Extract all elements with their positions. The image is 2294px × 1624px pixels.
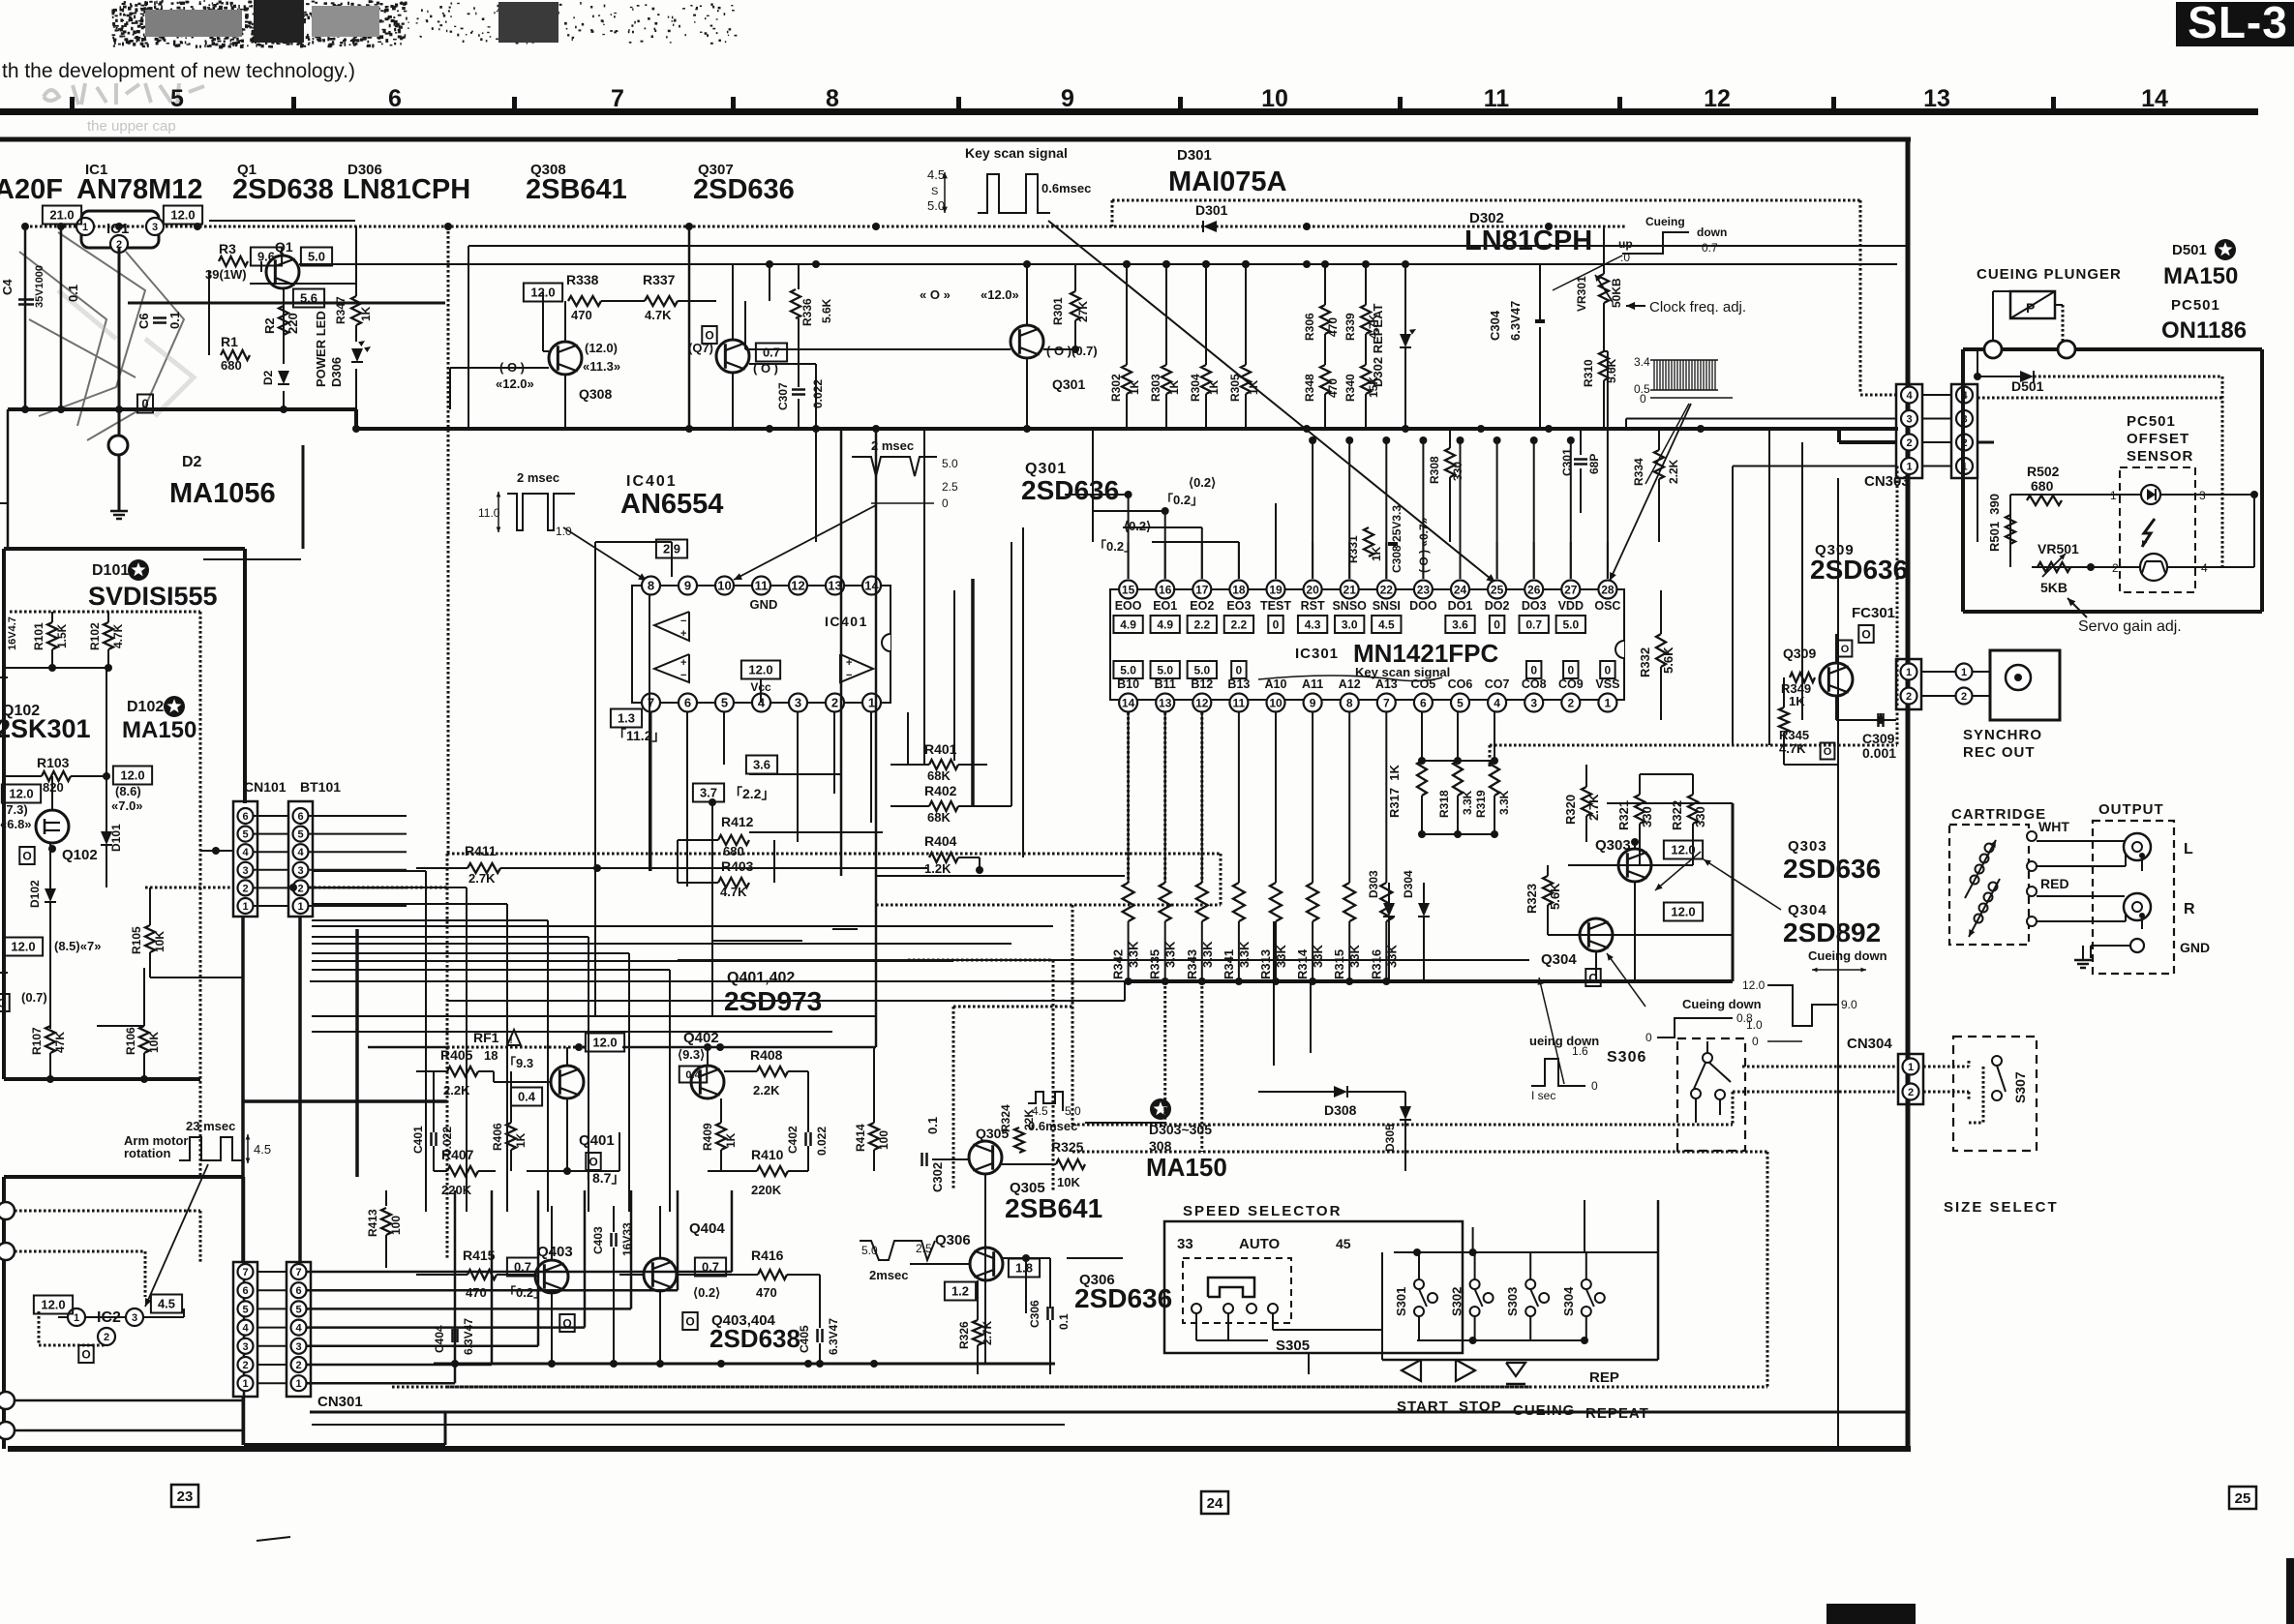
svg-text:ueing down: ueing down — [1529, 1034, 1599, 1048]
svg-text:1: 1 — [1906, 461, 1912, 472]
svg-text:39(1W): 39(1W) — [205, 267, 247, 282]
cartridge dashed box — [1949, 825, 2029, 945]
svg-text:7: 7 — [295, 1267, 301, 1278]
svg-text:Q304: Q304 — [1788, 902, 1827, 918]
svg-text:I sec: I sec — [1531, 1089, 1555, 1102]
svg-text:+: + — [680, 657, 686, 669]
svg-text:23: 23 — [177, 1489, 194, 1505]
svg-text:Q306: Q306 — [935, 1232, 971, 1248]
svg-text:4.5: 4.5 — [254, 1142, 271, 1157]
svg-text:D101: D101 — [92, 562, 129, 579]
mid horizontals from left to IC301 ladder — [678, 959, 1529, 961]
svg-text:220K: 220K — [751, 1183, 782, 1197]
resistor R107 47K — [45, 1026, 55, 1053]
right edge black bar — [2286, 1558, 2294, 1624]
svg-text:2SD636: 2SD636 — [1810, 555, 1908, 585]
phototransistor — [2140, 554, 2167, 581]
svg-text:5.0: 5.0 — [1562, 617, 1579, 631]
resistor R332 5.6K — [1656, 634, 1666, 667]
wires Q306 — [910, 1263, 970, 1265]
heavy node rail y1014 — [1125, 979, 1733, 983]
svg-text:0: 0 — [1273, 617, 1280, 631]
svg-text:0: 0 — [1494, 617, 1500, 631]
extra long vertical feeds — [840, 429, 843, 876]
svg-text:16V4.7: 16V4.7 — [7, 617, 18, 650]
svg-text:S: S — [931, 186, 938, 197]
wire main 12V bus y234 — [25, 226, 1626, 228]
svg-text:C301: C301 — [1560, 448, 1574, 476]
svg-text:3.7: 3.7 — [700, 786, 717, 800]
svg-text:R319: R319 — [1474, 790, 1488, 818]
svg-text:5.0: 5.0 — [942, 457, 958, 470]
svg-text:16V33: 16V33 — [620, 1222, 634, 1256]
svg-text:330: 330 — [1640, 806, 1654, 827]
svg-text:1K: 1K — [514, 1132, 528, 1148]
svg-text:5: 5 — [721, 696, 728, 710]
selector dashed box — [1183, 1258, 1291, 1323]
wire y273 collector bus — [299, 263, 1897, 265]
svg-text:Q102: Q102 — [62, 847, 98, 863]
svg-text:D501: D501 — [2172, 242, 2207, 258]
svg-text:R105: R105 — [130, 926, 143, 954]
capacitor C302 — [921, 1153, 923, 1166]
svg-text:2: 2 — [1906, 691, 1912, 703]
svg-text:O: O — [1861, 627, 1870, 641]
resistor R304 1K — [1201, 365, 1211, 394]
svg-text:12.0: 12.0 — [1671, 843, 1695, 857]
beaded pin2 wire — [145, 887, 233, 889]
svg-text:24: 24 — [1207, 1495, 1223, 1512]
svg-text:2SD636: 2SD636 — [1074, 1283, 1172, 1313]
selector staple symbol — [1208, 1278, 1254, 1297]
leader to IC401 pin10 — [734, 505, 876, 580]
staircase waveform 12-9-1-0 — [1767, 985, 1837, 1026]
svg-text:6.3V47: 6.3V47 — [827, 1318, 840, 1355]
svg-text:S301: S301 — [1394, 1287, 1408, 1316]
transistor Q306 — [970, 1248, 1003, 1280]
ruler ticks — [70, 97, 75, 110]
svg-text:2: 2 — [1961, 691, 1967, 703]
svg-text:C401: C401 — [411, 1126, 425, 1154]
jack stems — [2141, 856, 2143, 871]
heavy bottom rail Q40x block — [434, 1363, 1055, 1366]
svg-text:R403: R403 — [721, 858, 754, 874]
svg-text:100: 100 — [389, 1216, 403, 1235]
svg-text:D302: D302 — [1469, 210, 1504, 226]
svg-text:IC401: IC401 — [825, 614, 868, 629]
svg-text:680: 680 — [2031, 478, 2054, 494]
svg-text:⟨9.3⟩: ⟨9.3⟩ — [678, 1047, 705, 1062]
svg-text:EO1: EO1 — [1153, 599, 1177, 613]
svg-text:12.0: 12.0 — [11, 940, 35, 954]
svg-text:⟨0.2⟩: ⟨0.2⟩ — [693, 1285, 720, 1300]
svg-text:rotation: rotation — [124, 1146, 170, 1160]
svg-text:down: down — [1697, 226, 1727, 239]
svg-text:5.6K: 5.6K — [1548, 883, 1562, 910]
diode D102 — [45, 888, 56, 902]
svg-text:CN304: CN304 — [1847, 1036, 1892, 1052]
svg-text:Q303: Q303 — [1788, 838, 1827, 855]
svg-text:8: 8 — [1346, 696, 1353, 709]
connector CN301 left — [233, 1262, 257, 1397]
svg-text:13: 13 — [1923, 85, 1950, 112]
svg-text:R301: R301 — [1051, 297, 1065, 325]
svg-text:R320: R320 — [1563, 795, 1578, 825]
value box 0 — [19, 847, 34, 864]
svg-text:「0.2」: 「0.2」 — [1161, 493, 1203, 507]
resistor R317 1K — [1417, 761, 1427, 796]
svg-text:21: 21 — [1343, 583, 1357, 596]
IC401 body — [632, 586, 890, 703]
svg-text:68K: 68K — [927, 810, 951, 825]
svg-text:0.1: 0.1 — [925, 1117, 940, 1134]
wires D102 — [49, 843, 51, 888]
diode D501 — [2020, 371, 2034, 382]
resistor R301 27K — [1071, 291, 1080, 320]
svg-text:D304: D304 — [1402, 870, 1415, 898]
svg-text:1K: 1K — [1167, 379, 1181, 395]
svg-text:O: O — [589, 1155, 597, 1168]
svg-text:3.0: 3.0 — [1342, 617, 1358, 631]
corner wires pins 15-18 — [1065, 494, 1129, 496]
svg-text:LN81CPH: LN81CPH — [343, 174, 470, 205]
svg-text:4: 4 — [1906, 390, 1913, 402]
svg-text:B10: B10 — [1117, 677, 1139, 691]
svg-text:R402: R402 — [924, 783, 957, 798]
svg-text:470: 470 — [1326, 378, 1340, 398]
svg-text:(8.5)«7»: (8.5)«7» — [54, 939, 101, 953]
svg-text:R310: R310 — [1582, 359, 1595, 387]
resistor R338 470 — [568, 296, 601, 306]
capacitor C404 — [451, 1329, 454, 1342]
resistor R413 100 — [381, 1208, 391, 1235]
node open circle to D101 box — [128, 302, 445, 305]
svg-text:D2: D2 — [261, 370, 275, 385]
svg-text:R338: R338 — [566, 272, 599, 287]
IC301 bottom pins 14-1 — [1119, 694, 1137, 712]
svg-text:12.0: 12.0 — [9, 787, 33, 801]
wires Q305 — [932, 1158, 969, 1160]
svg-text:470: 470 — [466, 1285, 487, 1300]
svg-text:3.3K: 3.3K — [1497, 790, 1511, 815]
diodes D303 D304 — [1383, 903, 1395, 917]
value box 2.9 — [656, 540, 687, 558]
svg-text:R332: R332 — [1638, 647, 1652, 677]
svg-text:VR301: VR301 — [1575, 276, 1588, 312]
dotted bus top right — [1112, 199, 1860, 202]
svg-text:Cueing: Cueing — [1645, 215, 1685, 228]
resistor R316 33K — [1380, 883, 1392, 921]
connector CN304 — [1898, 1054, 1923, 1104]
svg-text:5.0: 5.0 — [861, 1244, 878, 1257]
svg-text:9: 9 — [1310, 696, 1316, 709]
svg-text:10K: 10K — [1057, 1175, 1080, 1189]
SL-3 title block — [2176, 2, 2294, 46]
svg-text:P: P — [2026, 300, 2035, 316]
svg-text:2.7K: 2.7K — [468, 871, 496, 886]
svg-text:AN78M12: AN78M12 — [76, 174, 203, 205]
svg-text:23 msec: 23 msec — [186, 1119, 235, 1133]
svg-text:GND: GND — [750, 597, 778, 612]
capacitor C403 — [610, 1233, 613, 1247]
svg-text:R314: R314 — [1295, 948, 1310, 979]
S306 switch — [1703, 1053, 1712, 1063]
svg-text:−: − — [680, 670, 686, 681]
brace curve key scan bottom — [1258, 676, 1442, 681]
leader to Q304 — [1607, 953, 1645, 1007]
resistor R319 3.3K — [1490, 761, 1499, 796]
arm motor leader arrow — [145, 1164, 208, 1307]
svg-text:IC1: IC1 — [106, 221, 129, 237]
svg-text:R: R — [2184, 901, 2195, 917]
transistor Q301 — [1011, 325, 1043, 358]
svg-text:GND: GND — [2180, 940, 2210, 955]
svg-text:C309: C309 — [1862, 731, 1895, 746]
svg-text:R416: R416 — [751, 1248, 784, 1263]
svg-text:2SD636: 2SD636 — [1021, 475, 1119, 505]
svg-text:SPEED SELECTOR: SPEED SELECTOR — [1183, 1203, 1342, 1219]
svg-text:R502: R502 — [2027, 464, 2060, 479]
resistor R409 1K — [716, 1123, 726, 1150]
svg-text:CO8: CO8 — [1522, 677, 1547, 691]
wires bottom of D101 box — [49, 1053, 51, 1079]
svg-text:−: − — [846, 670, 852, 681]
svg-text:Servo gain adj.: Servo gain adj. — [2078, 618, 2182, 635]
svg-text:4: 4 — [295, 1323, 302, 1335]
svg-text:17: 17 — [1195, 583, 1209, 596]
cartridge wires to output — [2037, 840, 2125, 842]
svg-text:「0.2」: 「0.2」 — [1094, 539, 1136, 554]
svg-text:2SD638: 2SD638 — [232, 174, 334, 205]
transistor Q404 — [644, 1258, 677, 1291]
svg-text:!: ! — [509, 1036, 512, 1046]
svg-text:0.7: 0.7 — [763, 346, 780, 360]
arrow icons start stop cueing — [1402, 1360, 1421, 1381]
svg-text:R322: R322 — [1670, 800, 1684, 830]
resistor R335 3.3K — [1160, 883, 1171, 921]
svg-text:TEST: TEST — [1260, 599, 1291, 613]
CN301 pin wires — [257, 1271, 287, 1273]
page number 25 — [2229, 1487, 2256, 1509]
svg-text:2 msec: 2 msec — [871, 438, 914, 453]
svg-text:DO1: DO1 — [1448, 599, 1473, 613]
svg-text:18: 18 — [484, 1048, 498, 1063]
svg-text:O: O — [81, 1347, 90, 1361]
svg-text:3: 3 — [795, 696, 801, 710]
wire stack staircase — [312, 870, 426, 872]
svg-text:24: 24 — [1454, 583, 1467, 596]
capacitor C306 — [1046, 1307, 1049, 1320]
svg-text:R102: R102 — [88, 622, 102, 650]
resistor R314 33K — [1307, 883, 1318, 921]
svg-text:R313: R313 — [1258, 949, 1273, 979]
svg-text:2.7K: 2.7K — [1586, 794, 1601, 821]
svg-text:EO2: EO2 — [1190, 599, 1214, 613]
svg-text:2: 2 — [1567, 696, 1574, 709]
svg-text:28: 28 — [1601, 583, 1615, 596]
svg-text:「8.7」: 「8.7」 — [579, 1170, 624, 1186]
value box 12.0 at IC1 — [164, 206, 202, 225]
svg-text:R501 390: R501 390 — [1987, 494, 2002, 552]
svg-text:R413: R413 — [366, 1209, 379, 1237]
D101 box border — [4, 547, 245, 551]
svg-text:Clock freq. adj.: Clock freq. adj. — [1649, 299, 1746, 316]
svg-text:O: O — [685, 1314, 694, 1328]
selector contacts — [1192, 1304, 1201, 1313]
svg-text:Q403: Q403 — [537, 1244, 573, 1260]
svg-text:2.2: 2.2 — [1231, 617, 1248, 631]
svg-text:CUEING: CUEING — [1513, 1402, 1575, 1419]
svg-text:13: 13 — [1159, 696, 1172, 709]
left edge connector circles — [0, 1202, 15, 1219]
svg-text:AUTO: AUTO — [1239, 1236, 1281, 1252]
svg-text:STOP: STOP — [1459, 1398, 1502, 1415]
svg-text:O: O — [0, 996, 7, 1009]
IC401 bottom pins — [642, 694, 660, 712]
IC1 regulator — [81, 211, 159, 248]
GND terminal — [2130, 939, 2144, 952]
resistor R326 2.7K — [973, 1320, 982, 1345]
svg-text:RST: RST — [1301, 599, 1325, 613]
svg-text:BT101: BT101 — [300, 779, 341, 795]
svg-text:(8.6): (8.6) — [115, 784, 141, 798]
svg-text:2.5: 2.5 — [916, 1242, 932, 1255]
resistor R337 4.7K — [645, 296, 678, 306]
label Q403,404 2SD638 — [682, 1312, 697, 1330]
svg-text:1: 1 — [295, 1378, 301, 1390]
sensor dashed box — [2120, 467, 2195, 592]
svg-text:C6: C6 — [136, 313, 151, 329]
svg-text:CO7: CO7 — [1485, 677, 1510, 691]
svg-text:−: − — [680, 616, 686, 627]
svg-text:SENSOR: SENSOR — [2127, 448, 2193, 465]
wire CN101 pin4 junction — [212, 847, 220, 855]
svg-text:4.5: 4.5 — [158, 1297, 175, 1311]
svg-text:7: 7 — [1383, 696, 1390, 709]
svg-text:2.2K: 2.2K — [443, 1083, 470, 1098]
svg-text:0.001: 0.001 — [1862, 745, 1896, 761]
svg-text:68K: 68K — [927, 768, 951, 783]
svg-text:0: 0 — [1605, 663, 1612, 677]
connector CN301 right — [287, 1262, 311, 1397]
inner box left edge — [468, 246, 469, 429]
resistor R1 — [221, 350, 250, 360]
svg-text:R339: R339 — [1343, 313, 1357, 341]
svg-text:5.0: 5.0 — [308, 250, 325, 264]
value box 12.0 +(8.6)((7.0)) — [113, 767, 152, 785]
svg-text:2.2K: 2.2K — [1667, 459, 1680, 484]
wires Q102 area — [106, 668, 107, 831]
IC2 value boxes — [34, 1296, 73, 1314]
svg-text:DO2: DO2 — [1485, 599, 1510, 613]
svg-text:LN81CPH: LN81CPH — [1464, 226, 1592, 256]
svg-text:0.022: 0.022 — [811, 379, 825, 408]
wire y273 junctions — [1123, 260, 1131, 268]
resistor R347 1K — [351, 296, 361, 325]
svg-text:3.6: 3.6 — [753, 758, 770, 772]
svg-text:REPEAT: REPEAT — [1585, 1405, 1649, 1422]
sensor wires — [2010, 494, 2141, 496]
svg-text:R308: R308 — [1428, 456, 1441, 484]
svg-text:R326: R326 — [957, 1321, 971, 1349]
resistor R308 330 — [1445, 448, 1455, 477]
diode D301 on wire — [1203, 221, 1217, 232]
svg-text:PC501: PC501 — [2127, 413, 2176, 430]
svg-text:330: 330 — [1693, 806, 1707, 827]
resistor R323 5.6K — [1543, 876, 1553, 905]
lightning bolt — [2142, 519, 2155, 547]
diode D2 — [278, 371, 289, 384]
svg-text:S304: S304 — [1561, 1286, 1576, 1316]
resistor R414 100 — [869, 1123, 879, 1150]
svg-text:R407: R407 — [441, 1147, 474, 1162]
svg-text:0: 0 — [1645, 1031, 1652, 1044]
wire 12V rail Q401 — [368, 1046, 447, 1049]
svg-text:9.0: 9.0 — [1841, 998, 1857, 1011]
resistor R303 1K — [1162, 365, 1171, 394]
verticals to IC301 top pins — [1312, 440, 1313, 579]
resistor R331 1K — [1364, 527, 1373, 556]
svg-text:R302: R302 — [1109, 374, 1123, 402]
capacitor C6 — [153, 316, 166, 319]
capacitor C308 25V3.3 — [1388, 542, 1398, 546]
svg-text:2: 2 — [242, 883, 248, 894]
wire 3.7 node — [712, 940, 802, 942]
svg-text:27: 27 — [1564, 583, 1578, 596]
resistor R310 5.6K — [1599, 351, 1609, 380]
svg-text:D302 REPEAT: D302 REPEAT — [1371, 303, 1385, 387]
svg-text:2SD636: 2SD636 — [1783, 854, 1881, 884]
svg-text:1K: 1K — [1128, 379, 1141, 395]
resistor R106 10K — [139, 1026, 149, 1053]
leader burst to pin — [1645, 404, 1689, 484]
svg-text:R411: R411 — [465, 843, 497, 858]
svg-text:2: 2 — [295, 1360, 301, 1371]
svg-text:R405: R405 — [440, 1047, 473, 1063]
svg-text:4.5: 4.5 — [927, 167, 945, 182]
svg-text:3.4: 3.4 — [1634, 355, 1650, 369]
svg-text:5: 5 — [295, 1304, 301, 1315]
value box 0 below R345 — [1821, 743, 1835, 760]
svg-text:0.8: 0.8 — [1736, 1011, 1753, 1025]
svg-text:5.0: 5.0 — [927, 198, 945, 213]
svg-text:A20F: A20F — [0, 174, 63, 205]
transistor Q304 — [1580, 918, 1613, 951]
svg-text:up: up — [1618, 237, 1633, 251]
connector FC301 pins — [1896, 659, 1921, 709]
wires Q403/Q404 row — [416, 1274, 468, 1276]
svg-text:R336: R336 — [800, 298, 814, 326]
waveform trapezoid 2msec — [860, 1241, 935, 1260]
svg-text:6: 6 — [684, 696, 691, 710]
svg-text:2: 2 — [1908, 1087, 1914, 1098]
resistor R340 15K — [1361, 365, 1371, 394]
star D303-305 MA150 — [1150, 1098, 1171, 1120]
main bus vertical lower — [1907, 1104, 1909, 1449]
svg-text:R337: R337 — [643, 272, 676, 287]
svg-text:FC301: FC301 — [1852, 605, 1895, 621]
svg-text:CN303: CN303 — [1864, 473, 1910, 490]
svg-text:S303: S303 — [1505, 1287, 1520, 1316]
resistor R321 330 — [1635, 795, 1645, 824]
svg-text:6: 6 — [388, 85, 402, 112]
svg-text:OSC: OSC — [1594, 599, 1620, 613]
svg-text:5: 5 — [170, 85, 184, 112]
svg-text:21.0: 21.0 — [49, 208, 74, 223]
wire Q307 — [732, 264, 734, 340]
heavy verticals below connectors — [241, 917, 245, 1262]
svg-text:12.0: 12.0 — [592, 1036, 617, 1050]
